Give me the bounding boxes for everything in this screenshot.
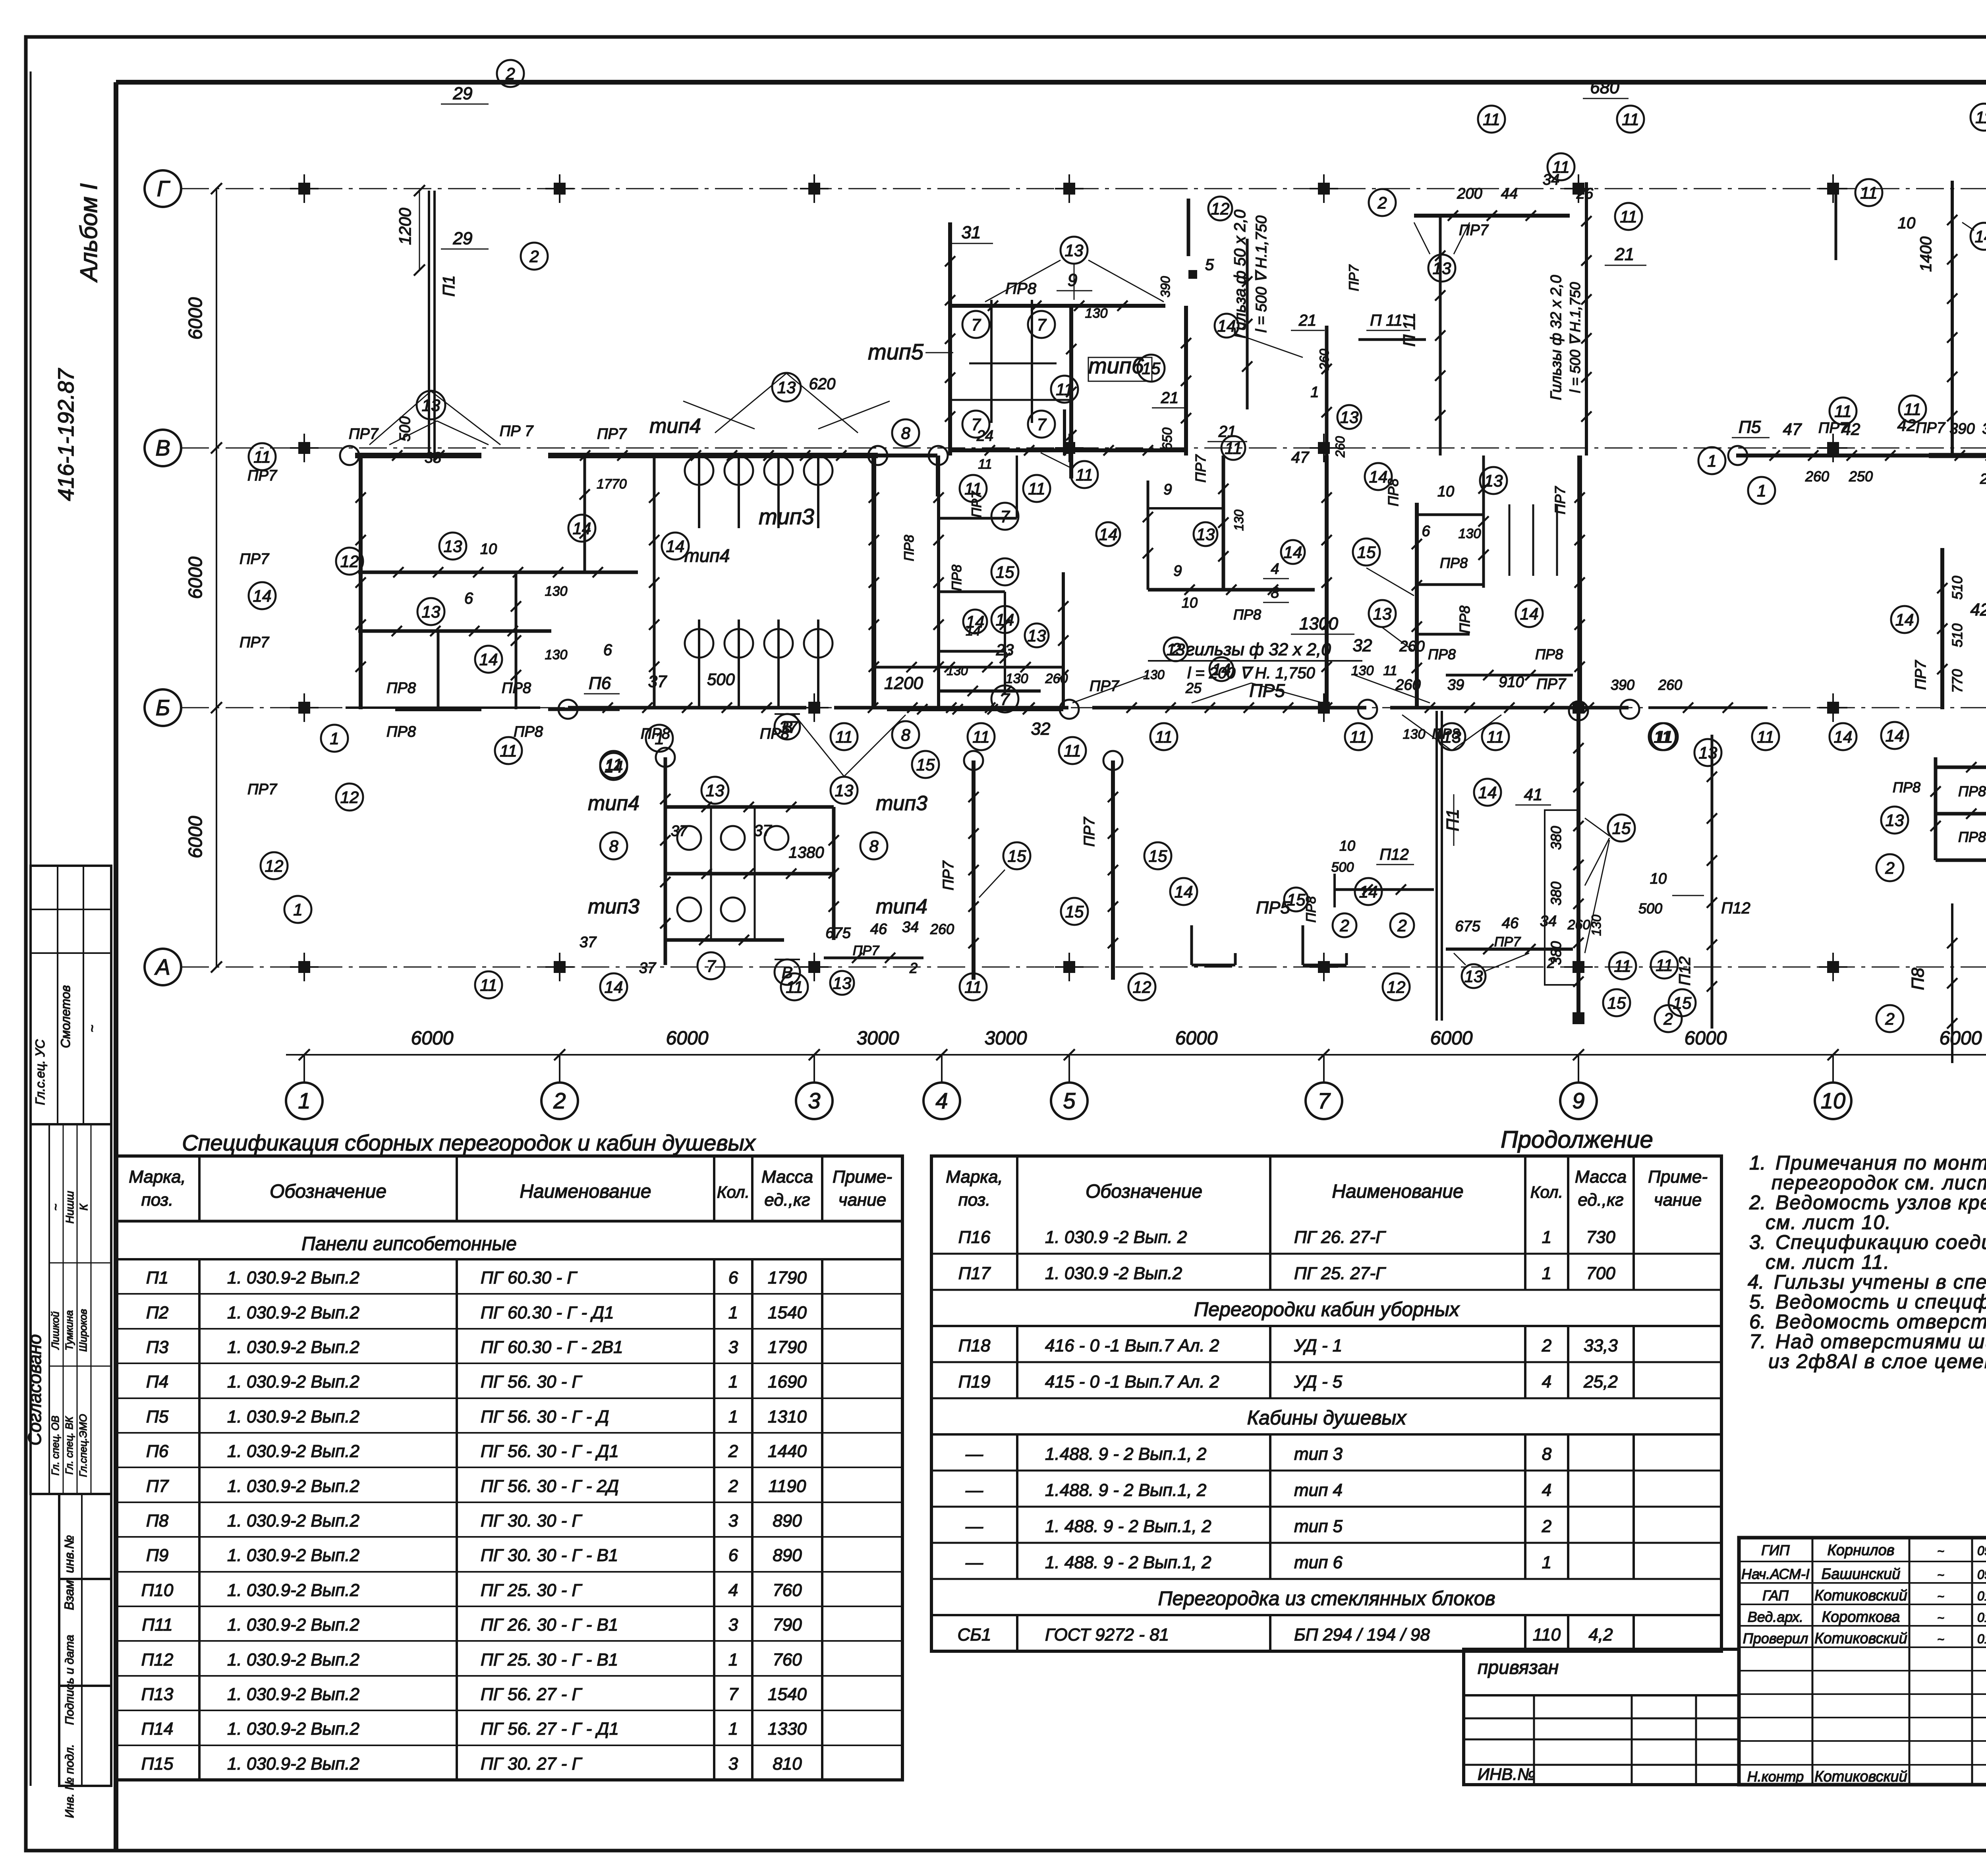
svg-text:тип 6: тип 6 (1294, 1553, 1343, 1572)
svg-text:8: 8 (609, 837, 618, 855)
circle 11 l (1051, 376, 1078, 403)
svg-text:ПР8: ПР8 (1304, 896, 1319, 923)
svg-text:1. 030.9-2 Вып.2: 1. 030.9-2 Вып.2 (227, 1338, 359, 1357)
svg-text:8: 8 (869, 837, 879, 855)
svg-text:1. 030.9 -2 Вып. 2: 1. 030.9 -2 Вып. 2 (1045, 1228, 1187, 1247)
svg-text:13: 13 (1443, 728, 1461, 746)
svg-text:1790: 1790 (768, 1268, 807, 1287)
x2451 circ (1003, 842, 1030, 869)
column 1xА (298, 961, 310, 973)
svg-text:1200: 1200 (396, 208, 414, 245)
svg-text:2: 2 (1542, 1517, 1551, 1536)
svg-text:130: 130 (947, 664, 968, 678)
wall v x1647 (653, 455, 656, 709)
axis circle 9 (1560, 1083, 1597, 1119)
svg-text:1: 1 (728, 1407, 738, 1426)
svg-text:чание: чание (1654, 1190, 1702, 1210)
circle Б 15 (912, 751, 939, 778)
wall Б c (834, 706, 1068, 710)
wall h y1305 (939, 517, 1017, 520)
svg-text:42: 42 (1971, 600, 1986, 620)
svg-text:Приме-: Приме- (833, 1167, 892, 1187)
svg-text:1200: 1200 (884, 674, 923, 693)
svg-text:5: 5 (1205, 256, 1214, 274)
svg-text:П2: П2 (146, 1303, 168, 1322)
svg-text:29: 29 (453, 84, 473, 103)
svg-text:15: 15 (916, 755, 935, 774)
svg-text:перегородок см. лист 10.: перегородок см. лист 10. (1772, 1172, 1986, 1194)
B mid circles (1748, 477, 1775, 504)
svg-text:390: 390 (1949, 421, 1974, 437)
svg-text:890: 890 (773, 1511, 802, 1531)
wall v x2530 (1004, 592, 1006, 691)
axis 5 leader (1068, 1055, 1070, 1083)
svg-text:4: 4 (1542, 1480, 1551, 1500)
wall h 79b (1417, 583, 1484, 586)
svg-text:7: 7 (971, 415, 981, 434)
svg-text:3: 3 (728, 1511, 738, 1531)
cabR circles (1881, 807, 1908, 834)
column 1xВ (298, 442, 310, 454)
svg-text:510: 510 (1949, 576, 1965, 600)
svg-text:П13: П13 (141, 1685, 174, 1704)
svg-text:13: 13 (1028, 626, 1046, 645)
svg-text:37: 37 (580, 934, 597, 951)
svg-text:7: 7 (706, 957, 716, 975)
column 9xА (1573, 961, 1584, 973)
svg-text:13: 13 (833, 974, 852, 992)
specification table 1 (116, 1156, 902, 1780)
П11 circle2 (1369, 189, 1396, 216)
svg-text:1. 030.9-2 Вып.2: 1. 030.9-2 Вып.2 (227, 1754, 359, 1774)
wall v x2560b (1016, 455, 1018, 518)
x2802 circ (1061, 898, 1088, 925)
svg-text:47: 47 (1291, 449, 1310, 466)
svg-text:ПГ 25. 30 - Г - В1: ПГ 25. 30 - Г - В1 (481, 1650, 618, 1669)
svg-text:Перегородка из стеклянных б: Перегородка из стеклянных блоков (1158, 1587, 1495, 1610)
column 9xГ (1573, 183, 1584, 195)
svg-text:Котиковский: Котиковский (1814, 1587, 1907, 1604)
x2080 circ (781, 973, 808, 1000)
wall v x4622 (1835, 183, 1837, 260)
svg-text:14: 14 (253, 587, 272, 605)
svg-text:Нишш: Нишш (64, 1191, 76, 1224)
svg-text:6000: 6000 (666, 1028, 709, 1049)
svg-text:тип3: тип3 (588, 895, 639, 918)
svg-text:11: 11 (1483, 110, 1500, 129)
svg-text:тип4: тип4 (649, 415, 701, 438)
wall П1 vertical (428, 191, 430, 455)
junction @4103,1786 (1620, 700, 1639, 719)
svg-text:8: 8 (1542, 1444, 1552, 1464)
wall h y1490 (939, 591, 1005, 593)
cabin t3 top 1 (738, 455, 740, 528)
svg-text:2: 2 (529, 247, 539, 266)
svg-text:130: 130 (1351, 663, 1374, 678)
t56 battery divider b (1031, 300, 1033, 423)
mid room circ (963, 610, 987, 633)
column 10xГ (1827, 183, 1839, 195)
battery79 1 (1532, 504, 1534, 576)
svg-text:ПР8: ПР8 (386, 724, 416, 740)
axis circle 2 (541, 1083, 578, 1119)
cab2 circles (701, 777, 728, 804)
svg-text:38: 38 (425, 450, 441, 466)
svg-text:П19: П19 (958, 1372, 991, 1392)
svg-text:13: 13 (777, 378, 796, 397)
svg-text:Вед.арх.: Вед.арх. (1748, 1609, 1803, 1625)
svg-text:П1: П1 (1443, 809, 1462, 831)
svg-text:П7: П7 (146, 1476, 169, 1496)
wall v x2363 full (937, 455, 940, 709)
svg-text:ПР7: ПР7 (969, 491, 984, 517)
svg-text:15: 15 (996, 563, 1014, 581)
svg-text:11: 11 (1620, 207, 1637, 226)
svg-text:ПГ 26. 30 - Г - В1: ПГ 26. 30 - Г - В1 (481, 1615, 618, 1635)
svg-text:тип5: тип5 (868, 339, 924, 364)
fan leaders 1 (794, 715, 844, 776)
svg-text:47: 47 (1783, 420, 1802, 438)
svg-text:чание: чание (838, 1190, 886, 1210)
cab2 cellcirc (677, 826, 701, 850)
svg-text:~: ~ (1937, 1590, 1944, 1603)
svg-text:1310: 1310 (768, 1407, 807, 1426)
svg-text:Котиковский: Котиковский (1814, 1768, 1907, 1785)
svg-text:15: 15 (1142, 359, 1161, 378)
svg-text:416 - 0 -1 Вып.7 Ал. 2: 416 - 0 -1 Вып.7 Ал. 2 (1045, 1336, 1219, 1355)
svg-text:390: 390 (1158, 276, 1173, 297)
svg-text:Инв. № подл.: Инв. № подл. (63, 1744, 76, 1818)
svg-text:l = 500 ∇ Н.1,750: l = 500 ∇ Н.1,750 (1567, 282, 1583, 393)
wall П11 v x3626 (1439, 216, 1442, 455)
svg-text:2: 2 (728, 1476, 738, 1496)
wall Brow bottom b (548, 708, 620, 711)
svg-text:Марка,: Марка, (129, 1167, 186, 1187)
svg-text:П8: П8 (146, 1511, 169, 1531)
circle Б 11 (1150, 723, 1177, 750)
svg-text:8: 8 (901, 726, 910, 744)
svg-text:Н.контр: Н.контр (1747, 1768, 1804, 1785)
svg-text:~: ~ (49, 1204, 62, 1211)
wall Б b (568, 706, 806, 710)
svg-text:14: 14 (1175, 882, 1193, 901)
svg-text:П17: П17 (958, 1264, 991, 1283)
svg-text:22: 22 (1980, 471, 1986, 487)
svg-text:1: 1 (1310, 384, 1319, 401)
cab2 v1 (664, 757, 667, 965)
svg-text:130: 130 (1085, 306, 1108, 321)
wall mid y1441 (358, 571, 638, 574)
В flag a (775, 714, 800, 739)
svg-text:ПР7: ПР7 (247, 781, 278, 798)
cabin t3 top 3 (817, 455, 819, 528)
svg-text:поз.: поз. (141, 1190, 174, 1210)
svg-text:ПР7: ПР7 (1916, 420, 1946, 436)
svg-text:Продолжение: Продолжение (1501, 1126, 1653, 1153)
svg-text:ПР8: ПР8 (514, 724, 543, 740)
svg-text:11: 11 (964, 978, 982, 996)
svg-text:14: 14 (1478, 783, 1497, 802)
svg-text:—: — (965, 1517, 983, 1536)
svg-text:3.: 3. (1749, 1231, 1766, 1253)
svg-text:Башинский: Башинский (1822, 1566, 1901, 1583)
svg-text:П18: П18 (958, 1336, 991, 1355)
svg-text:12: 12 (265, 857, 284, 875)
svg-text:1440: 1440 (768, 1442, 807, 1461)
x3974 labels (1474, 779, 1501, 806)
svg-text:ГОСТ 9272 - 81: ГОСТ 9272 - 81 (1045, 1625, 1169, 1644)
axis9 top circles (1547, 153, 1575, 180)
svg-text:680: 680 (1590, 78, 1619, 97)
svg-text:П10: П10 (141, 1581, 174, 1600)
svg-text:21: 21 (1615, 245, 1634, 264)
circle Б 11 (968, 723, 995, 750)
hook ПР5 b (1302, 925, 1304, 965)
svg-text:10: 10 (1182, 594, 1198, 611)
svg-text:1. 030.9-2 Вып.2: 1. 030.9-2 Вып.2 (227, 1650, 359, 1669)
svg-text:Масса: Масса (1575, 1167, 1627, 1187)
svg-text:2.: 2. (1749, 1191, 1766, 1214)
svg-text:13: 13 (1340, 408, 1359, 427)
svg-text:1. 030.9-2 Вып.2: 1. 030.9-2 Вып.2 (227, 1407, 359, 1426)
t56 battery mid (951, 399, 1071, 401)
svg-text:11: 11 (480, 976, 497, 994)
svg-text:ПР8: ПР8 (1893, 779, 1920, 795)
svg-text:из 2ф8АI в слое цементного: из 2ф8АI в слое цементного раствора М50 … (1768, 1350, 1986, 1372)
svg-text:12: 12 (1133, 978, 1151, 996)
wall v x2200 (871, 455, 876, 709)
svg-text:1. 030.9-2 Вып.2: 1. 030.9-2 Вып.2 (227, 1476, 359, 1496)
svg-text:11: 11 (1757, 728, 1774, 746)
wall v x908 (359, 455, 363, 709)
svg-text:1300: 1300 (1299, 614, 1338, 633)
svg-text:14: 14 (1217, 317, 1236, 335)
circle11 x4700 (1855, 179, 1882, 206)
t56 wall midv (1069, 306, 1073, 479)
svg-text:6: 6 (603, 641, 612, 659)
svg-text:ПГ 56. 27 - Г: ПГ 56. 27 - Г (481, 1685, 582, 1704)
svg-text:500: 500 (1638, 900, 1662, 917)
svg-text:А: А (154, 954, 170, 979)
circle 13 l (439, 533, 466, 560)
svg-text:Ведомость и спецификацию пе: Ведомость и спецификацию перемычек см. л… (1775, 1291, 1986, 1313)
axis 9 leader (1578, 1055, 1579, 1083)
svg-text:1.488. 9 - 2 Вып.1, 2: 1.488. 9 - 2 Вып.1, 2 (1045, 1480, 1206, 1500)
svg-text:15: 15 (1287, 890, 1306, 909)
svg-text:11: 11 (1383, 663, 1397, 678)
circle 14 l (475, 646, 502, 673)
wall v x1472 (583, 455, 586, 572)
t56 wall top (950, 304, 1165, 308)
svg-text:П4: П4 (146, 1372, 168, 1392)
svg-text:см. лист 10.: см. лист 10. (1766, 1211, 1891, 1233)
svg-text:6000: 6000 (185, 556, 206, 599)
svg-text:1. 488. 9 - 2 Вып.1, 2: 1. 488. 9 - 2 Вып.1, 2 (1045, 1517, 1211, 1536)
column 7xВ (1318, 442, 1330, 454)
svg-text:10: 10 (1898, 214, 1916, 232)
svg-text:21: 21 (1298, 312, 1317, 329)
svg-text:~: ~ (1937, 1569, 1944, 1582)
svg-text:П1: П1 (439, 275, 458, 297)
svg-text:11: 11 (978, 457, 992, 472)
wall v x3974 low (1576, 709, 1580, 1021)
svg-text:Тумкина: Тумкина (63, 1310, 75, 1350)
svg-text:770: 770 (1949, 669, 1965, 693)
svg-text:14: 14 (605, 757, 623, 776)
circle Б 11 (495, 737, 522, 764)
svg-text:11: 11 (786, 978, 803, 996)
svg-text:37: 37 (671, 823, 688, 840)
circle 7 l (991, 685, 1018, 712)
svg-text:1. 030.9-2 Вып.2: 1. 030.9-2 Вып.2 (227, 1546, 359, 1565)
svg-text:К: К (77, 1203, 90, 1210)
axis line А (181, 967, 1986, 968)
svg-text:тип4: тип4 (684, 545, 730, 566)
svg-text:1: 1 (1542, 1553, 1551, 1572)
svg-text:7: 7 (1000, 507, 1010, 526)
svg-text:~: ~ (85, 1025, 99, 1033)
wall h y1740 (939, 689, 1041, 693)
svg-text:ПР 7: ПР 7 (500, 423, 534, 440)
svg-text:тип4: тип4 (588, 792, 639, 815)
svg-text:Наименование: Наименование (520, 1181, 651, 1202)
svg-text:13: 13 (1464, 967, 1483, 986)
column 10xБ (1827, 702, 1839, 714)
svg-text:42: 42 (1897, 416, 1916, 434)
svg-text:260: 260 (1045, 671, 1068, 686)
svg-text:ПГ 60.30 - Г: ПГ 60.30 - Г (481, 1268, 578, 1287)
svg-text:01.86: 01.86 (1977, 1589, 1986, 1603)
svg-text:390: 390 (1611, 677, 1634, 693)
svg-text:14: 14 (605, 978, 623, 996)
svg-text:Нач.АСМ-I: Нач.АСМ-I (1741, 1566, 1810, 1582)
axis 7 leader (1323, 1055, 1325, 1083)
svg-text:14: 14 (1212, 660, 1231, 679)
wall h 79d (1446, 674, 1573, 677)
svg-text:11: 11 (1656, 956, 1673, 975)
79 circles (1365, 463, 1392, 490)
junction @2362,1147 (929, 446, 948, 465)
svg-text:675: 675 (1455, 918, 1480, 935)
wall v x3340 up (1325, 326, 1329, 455)
junction @1430,1786 (558, 700, 578, 719)
wall П11 h (1414, 214, 1570, 218)
svg-text:33,3: 33,3 (1584, 1336, 1618, 1355)
x4890 circles (1891, 606, 1918, 633)
svg-text:тип 5: тип 5 (1294, 1517, 1343, 1536)
svg-text:10: 10 (480, 541, 497, 558)
svg-text:11: 11 (1834, 402, 1852, 421)
svg-text:760: 760 (773, 1581, 802, 1600)
column 5xВ (1063, 442, 1075, 454)
svg-text:2: 2 (909, 960, 918, 976)
svg-text:ПР8: ПР8 (1428, 646, 1456, 662)
junction @3443,1786 (1358, 700, 1377, 719)
svg-text:13: 13 (1886, 811, 1904, 830)
svg-text:13: 13 (1699, 743, 1717, 762)
svg-text:46: 46 (870, 921, 887, 938)
svg-text:14: 14 (1359, 882, 1378, 901)
svg-text:500: 500 (397, 416, 413, 441)
wall v x2802 low (1111, 760, 1115, 980)
svg-text:Альбом I: Альбом I (75, 183, 102, 282)
svg-text:Корнилов: Корнилов (1827, 1542, 1894, 1559)
left dim tick А (211, 961, 222, 973)
svg-text:3000: 3000 (985, 1028, 1027, 1049)
circle 12 l (336, 784, 363, 811)
cab2 mid (664, 872, 834, 876)
svg-text:4,2: 4,2 (1588, 1625, 1613, 1644)
wall Б f (1648, 706, 1768, 709)
svg-text:260: 260 (1317, 349, 1331, 371)
svg-text:15: 15 (1065, 902, 1084, 921)
svg-text:12: 12 (340, 552, 359, 571)
svg-text:31: 31 (962, 223, 981, 242)
svg-text:ПР8: ПР8 (1440, 555, 1468, 571)
svg-text:12: 12 (340, 788, 359, 807)
bottom dim line (286, 1054, 1986, 1056)
svg-text:1770: 1770 (597, 477, 627, 492)
svg-text:Приме-: Приме- (1648, 1167, 1708, 1187)
svg-text:ПР8: ПР8 (386, 680, 416, 697)
wall mid y1589 (358, 629, 551, 633)
svg-text:Наименование: Наименование (1332, 1181, 1463, 1202)
column 7xБ (1318, 702, 1330, 714)
svg-text:650: 650 (1160, 428, 1175, 450)
svg-text:260: 260 (1399, 638, 1424, 655)
svg-text:1. 030.9-2 Вып.2: 1. 030.9-2 Вып.2 (227, 1303, 359, 1322)
svg-text:1: 1 (728, 1372, 738, 1392)
svg-text:6: 6 (1422, 523, 1430, 540)
svg-text:260: 260 (930, 921, 954, 937)
svg-text:1: 1 (728, 1650, 738, 1669)
left margin block (30, 71, 32, 1786)
svg-text:11: 11 (1076, 465, 1093, 484)
svg-text:ПР8: ПР8 (902, 535, 917, 561)
svg-text:110: 110 (1533, 1625, 1561, 1644)
svg-text:ПР7: ПР7 (853, 943, 879, 958)
svg-text:1: 1 (1542, 1228, 1551, 1247)
wall v x4890 (1940, 548, 1944, 709)
svg-text:ПР7: ПР7 (1913, 660, 1929, 690)
svg-text:3: 3 (728, 1338, 738, 1357)
svg-text:37: 37 (648, 672, 667, 691)
svg-text:ед.,кг: ед.,кг (764, 1190, 810, 1210)
column 3xБ (808, 702, 820, 714)
svg-text:3: 3 (808, 1088, 820, 1113)
svg-text:ПР7: ПР7 (1536, 676, 1567, 693)
svg-text:~: ~ (1937, 1545, 1944, 1558)
svg-text:46: 46 (1502, 915, 1519, 932)
svg-text:тип 4: тип 4 (1294, 1480, 1343, 1500)
circle 11 l (960, 475, 987, 502)
svg-text:УД - 1: УД - 1 (1294, 1336, 1342, 1355)
column 3xГ (808, 183, 820, 195)
svg-text:l = 200 ∇ Н. 1,750: l = 200 ∇ Н. 1,750 (1187, 664, 1315, 682)
svg-text:01.86: 01.86 (1977, 1610, 1986, 1625)
svg-text:1.: 1. (1749, 1152, 1766, 1174)
svg-text:П1: П1 (146, 1268, 168, 1287)
svg-text:510: 510 (1949, 623, 1965, 647)
svg-text:9: 9 (1572, 1088, 1584, 1113)
svg-text:1: 1 (655, 729, 664, 748)
junction @880,1147 (340, 446, 359, 465)
svg-text:ПГ 30. 30 - Г - В1: ПГ 30. 30 - Г - В1 (481, 1546, 618, 1565)
circle 11 l (249, 443, 276, 470)
svg-text:4: 4 (1271, 561, 1279, 577)
svg-text:П5: П5 (1739, 417, 1761, 437)
svg-text:2: 2 (1542, 1336, 1551, 1355)
